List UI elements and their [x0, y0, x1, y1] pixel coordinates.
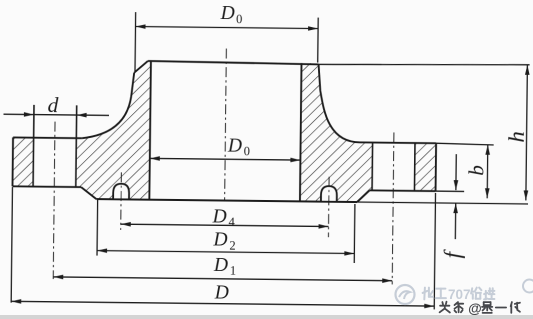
- axis centerline: [225, 49, 227, 200]
- plate left edge: [11, 137, 14, 186]
- svg-text:D: D: [213, 255, 228, 276]
- dome centerline right / D4 extension: [327, 177, 330, 237]
- bore right edge: [300, 63, 302, 201]
- dim f (raised face height): [436, 190, 465, 192]
- svg-text:h: h: [504, 131, 529, 143]
- plate top edge left: [13, 136, 82, 139]
- bolt centerline left: [53, 122, 55, 279]
- dim D2: [96, 200, 99, 255]
- raised face chamfer right: [357, 190, 370, 202]
- dim D (flange OD): [11, 187, 12, 302]
- svg-text:b: b: [464, 165, 488, 176]
- watermark text 头条@泵一代: [441, 302, 444, 304]
- svg-text:D: D: [212, 230, 227, 251]
- plate bottom edge right: [370, 189, 436, 192]
- svg-text:D: D: [227, 135, 242, 156]
- flange ring left section (hatched): [12, 137, 33, 186]
- neck top edge: [148, 61, 319, 64]
- bore left edge: [149, 61, 151, 199]
- bolt hole left wall 1: [32, 105, 35, 187]
- dim b (plate thickness): [436, 143, 494, 145]
- svg-text:0: 0: [244, 144, 250, 158]
- bolt-hole arc left (section detail): [113, 184, 129, 200]
- hub outer edge left: [131, 73, 134, 97]
- flange ring right section (hatched): [414, 143, 436, 191]
- hub fillet left: [82, 96, 131, 139]
- dim h (overall height): [319, 62, 530, 66]
- svg-text:D: D: [214, 282, 229, 303]
- svg-text:d: d: [47, 93, 58, 117]
- bolt hole right wall 1: [371, 143, 374, 191]
- svg-text:D: D: [220, 3, 235, 24]
- bolt hole right wall 2: [413, 143, 416, 191]
- raised face bottom edge: [96, 199, 357, 202]
- svg-text:1: 1: [230, 264, 236, 278]
- hub + plate right section (hatched): [300, 63, 374, 202]
- dome centerline left / D4 extension: [120, 172, 123, 229]
- svg-text:2: 2: [229, 238, 235, 252]
- hub fillet right: [320, 91, 361, 143]
- bolt hole left wall 2: [75, 105, 78, 187]
- plate right edge: [435, 143, 438, 191]
- hub outer edge right: [318, 64, 320, 90]
- plate top edge right: [360, 141, 436, 144]
- dim D1 (bolt circle): [53, 277, 392, 281]
- bolt centerline right: [392, 132, 394, 284]
- svg-text:4: 4: [229, 215, 236, 229]
- neck weld bevel left: [134, 61, 148, 73]
- watermark text 化工707论坛: [423, 288, 426, 300]
- watermark logo circle: [396, 285, 415, 304]
- bottom gray bar: [0, 315, 533, 319]
- svg-text:@: @: [468, 300, 482, 316]
- dim D0 top (neck OD): [134, 12, 137, 71]
- raised face chamfer left: [81, 187, 96, 199]
- dim D0 bore: [150, 158, 301, 160]
- dim D4: [121, 224, 329, 226]
- dim d (bolt hole dia): [4, 114, 109, 115]
- svg-text:0: 0: [236, 12, 242, 26]
- svg-text:D: D: [212, 206, 227, 227]
- plate bottom edge left: [12, 185, 81, 188]
- bolt-hole arc right (section detail): [321, 186, 337, 202]
- hub + plate left section (hatched): [76, 61, 151, 200]
